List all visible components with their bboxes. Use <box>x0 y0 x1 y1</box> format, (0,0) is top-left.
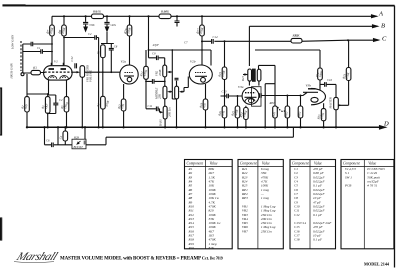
svg-text:C14: C14 <box>213 35 219 39</box>
svg-text:Value: Value <box>314 161 322 165</box>
svg-text:≈50v: ≈50v <box>89 23 96 27</box>
svg-text:C1: C1 <box>37 46 41 50</box>
svg-text:LOW GAIN: LOW GAIN <box>11 34 15 50</box>
svg-text:25K Lin: 25K Lin <box>261 229 272 233</box>
svg-text:82K: 82K <box>209 246 215 250</box>
svg-text:SW 1: SW 1 <box>345 175 352 179</box>
svg-text:# 76 51: # 76 51 <box>367 184 377 188</box>
svg-text:BOOST: BOOST <box>74 145 84 149</box>
svg-text:C12: C12 <box>294 213 300 217</box>
svg-text:A: A <box>378 11 383 18</box>
svg-text:V2b: V2b <box>190 60 196 64</box>
svg-text:RP3: RP3 <box>241 196 248 200</box>
svg-text:Marshall: Marshall <box>14 249 61 262</box>
svg-text:C7: C7 <box>184 41 188 45</box>
svg-text:0.1 µF: 0.1 µF <box>313 213 323 217</box>
svg-text:HIGH GAIN: HIGH GAIN <box>10 62 14 79</box>
svg-text:MASTER: MASTER <box>329 97 333 109</box>
svg-text:MODEL 2144: MODEL 2144 <box>364 262 390 267</box>
svg-text:C2: C2 <box>59 98 63 102</box>
svg-text:VR7: VR7 <box>242 229 248 233</box>
svg-text:RP1: RP1 <box>269 101 276 105</box>
svg-text:V3a: V3a <box>238 85 244 89</box>
svg-text:D: D <box>383 121 389 128</box>
svg-text:C: C <box>382 36 387 43</box>
svg-text:R20: R20 <box>188 246 195 250</box>
svg-text:C16: C16 <box>327 78 333 82</box>
svg-text:≈40v: ≈40v <box>110 23 117 27</box>
svg-text:C2: C2 <box>88 32 92 36</box>
svg-text:R21: R21 <box>241 76 245 82</box>
svg-text:47pF: 47pF <box>153 43 160 47</box>
svg-text:BASS: BASS <box>159 119 163 126</box>
svg-text:0.1 µF: 0.1 µF <box>313 238 323 242</box>
svg-text:C6: C6 <box>46 139 50 143</box>
svg-text:VOLUME: VOLUME <box>89 70 93 82</box>
svg-text:V3b: V3b <box>306 84 312 88</box>
svg-text:C12: C12 <box>70 56 74 62</box>
svg-text:Value: Value <box>210 161 218 165</box>
svg-text:B: B <box>381 23 385 30</box>
svg-text:Value: Value <box>262 161 270 165</box>
svg-text:Component: Component <box>343 161 361 165</box>
svg-text:R28: R28 <box>73 135 79 139</box>
svg-text:PCB: PCB <box>344 184 351 188</box>
svg-text:V2a: V2a <box>121 60 127 64</box>
svg-text:Value: Value <box>368 161 376 165</box>
svg-text:Component: Component <box>187 161 205 165</box>
svg-text:C18: C18 <box>294 238 300 242</box>
svg-text:20K Lin: 20K Lin <box>167 107 171 117</box>
svg-text:200K: 200K <box>158 69 162 77</box>
svg-text:Component: Component <box>240 161 258 165</box>
svg-text:V1: V1 <box>54 59 58 63</box>
svg-text:1 meg: 1 meg <box>261 196 269 200</box>
svg-text:C11: C11 <box>148 104 153 108</box>
svg-text:MASTER VOLUME MODEL with BOOST: MASTER VOLUME MODEL with BOOST & REVERB … <box>60 255 223 261</box>
svg-text:C9: C9 <box>152 52 156 56</box>
svg-text:Component: Component <box>292 161 310 165</box>
svg-text:C8: C8 <box>114 45 118 49</box>
